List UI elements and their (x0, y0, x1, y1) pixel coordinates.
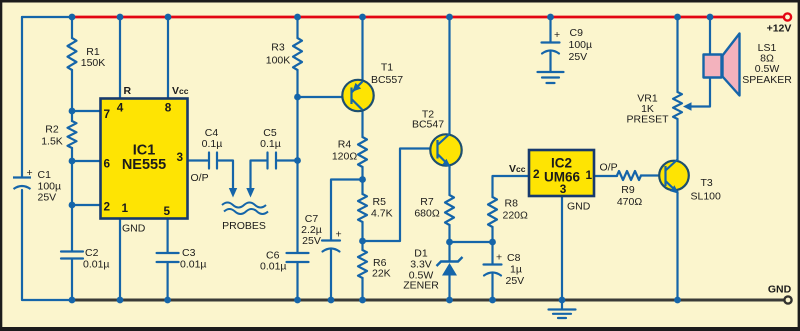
wire pin4 to +12V rail (119, 17, 121, 99)
wire VR1 wiper to speaker return (689, 78, 710, 107)
svg-text:1.5K: 1.5K (41, 136, 63, 148)
probe arrow 1 (229, 188, 237, 198)
wire pin6 tap (72, 160, 101, 162)
resistor R5 (358, 194, 367, 222)
svg-text:R5: R5 (373, 196, 387, 208)
svg-text:1: 1 (122, 201, 129, 215)
svg-text:3: 3 (560, 182, 567, 196)
wire R1 bottom to pin7 node (72, 70, 101, 111)
resistor R8 (488, 197, 497, 227)
wire pin7 node down (71, 111, 73, 121)
wire R3 bottom to T1 base node (296, 70, 298, 97)
svg-text:Vcc: Vcc (509, 163, 526, 175)
svg-text:+: + (554, 29, 560, 41)
capacitor C7 plates (322, 239, 340, 241)
wire pin2 tap (72, 204, 101, 206)
svg-text:Vcc: Vcc (172, 85, 189, 97)
wire D1 anode to ground rail (448, 275, 450, 300)
ground rail (black) (72, 299, 784, 302)
resistor R6 (358, 250, 367, 278)
wire C4 to probe 1 drop (219, 161, 234, 189)
wire T2 base path from R5/R6 node (363, 149, 438, 242)
wire node to C7 (331, 180, 363, 241)
wire speaker top to +12V rail (709, 17, 711, 55)
svg-text:100K: 100K (266, 55, 291, 67)
wire T1 collector to R4 (361, 110, 363, 137)
svg-text:2: 2 (533, 167, 540, 181)
wire C7 to ground rail (330, 250, 332, 300)
svg-text:25V: 25V (302, 235, 321, 247)
resistor R4 (358, 137, 367, 167)
svg-text:0.1µ: 0.1µ (202, 138, 223, 150)
svg-text:T1: T1 (381, 62, 393, 74)
svg-text:R4: R4 (338, 139, 352, 151)
svg-text:O/P: O/P (191, 172, 209, 184)
zener D1 (437, 257, 463, 276)
svg-text:R2: R2 (45, 124, 59, 136)
wire T2 emitter down to R7 (448, 166, 450, 195)
resistor R3 (293, 38, 302, 70)
svg-text:8: 8 (165, 101, 172, 115)
wire R7 bottom to node (448, 225, 450, 242)
svg-text:GND: GND (567, 201, 591, 213)
wire top-left blue segment (22, 16, 72, 18)
wire C9 to +12V rail (549, 17, 551, 42)
svg-text:R9: R9 (621, 184, 635, 196)
svg-text:R: R (124, 85, 132, 97)
resistor R2 (68, 121, 77, 148)
wire T1 base tap (298, 96, 352, 98)
wire R8 bottom to node (491, 227, 493, 242)
svg-text:BC557: BC557 (371, 74, 403, 86)
svg-text:120Ω: 120Ω (332, 151, 358, 163)
capacitor C1 (13, 178, 31, 190)
wire left riser from +12V corner to C1 (21, 17, 23, 177)
capacitor C2 (61, 252, 83, 259)
svg-text:PROBES: PROBES (222, 220, 266, 232)
wire R4 bottom to node and down to R5 (361, 167, 363, 194)
wire R6 to ground rail (361, 278, 363, 300)
wire C1 bottom to bottom rail corner and blue rail start (22, 190, 72, 300)
+12V rail (red) (72, 16, 784, 19)
probes water symbol (222, 203, 268, 215)
svg-text:O/P: O/P (600, 162, 618, 174)
svg-text:3: 3 (176, 150, 183, 164)
svg-text:NE555: NE555 (122, 157, 166, 173)
svg-text:1µ: 1µ (510, 264, 522, 276)
svg-text:6: 6 (104, 157, 111, 171)
IC2 UM66 box (529, 150, 594, 196)
wire T1 emitter to +12V rail (361, 17, 363, 81)
wire R5 bottom to node R6 (361, 222, 363, 250)
svg-text:150K: 150K (81, 57, 106, 69)
svg-text:T3: T3 (701, 177, 713, 189)
capacitor C4 (209, 153, 217, 169)
svg-text:22K: 22K (372, 268, 391, 280)
svg-text:SPEAKER: SPEAKER (742, 74, 792, 86)
svg-text:+: + (496, 252, 502, 264)
wire R2 bottom through pin6 and pin2 nodes to C2 (71, 148, 73, 251)
svg-text:R8: R8 (505, 198, 519, 210)
svg-text:+: + (27, 167, 33, 179)
svg-text:4: 4 (117, 101, 124, 115)
svg-text:BC547: BC547 (412, 119, 444, 131)
capacitor C3 (157, 253, 179, 262)
wire pin1 to ground rail (119, 219, 121, 301)
svg-text:GND: GND (768, 284, 792, 296)
svg-text:7: 7 (104, 107, 111, 121)
wire node to C8 (491, 242, 493, 264)
wire C9 to ground symbol (549, 52, 551, 72)
svg-text:SL100: SL100 (691, 191, 722, 203)
svg-text:C1: C1 (38, 169, 52, 181)
wire node to C5 node down to C6 (296, 97, 298, 253)
wire IC2 output pin1 to R9 (594, 175, 617, 177)
wire C3 to ground rail (167, 263, 169, 301)
resistor R9 (617, 171, 641, 180)
svg-text:ZENER: ZENER (403, 280, 439, 292)
svg-text:C3: C3 (182, 247, 196, 259)
svg-text:25V: 25V (569, 51, 588, 63)
capacitor C5 (268, 153, 277, 169)
wire T2 collector to +12V rail (448, 17, 450, 134)
capacitor C9 plates (542, 41, 560, 43)
wire T3 emitter to ground rail (676, 192, 678, 300)
svg-text:+12V: +12V (767, 23, 792, 35)
probe arrow 2 (246, 188, 254, 198)
svg-text:C8: C8 (507, 252, 521, 264)
svg-text:5: 5 (164, 204, 171, 218)
transistor T3 SL100 (659, 160, 689, 194)
wire VR1 bottom to T3 collector (676, 119, 678, 160)
svg-text:220Ω: 220Ω (503, 210, 529, 222)
wire probe 2 riser to C5 (251, 161, 267, 189)
svg-text:0.1µ: 0.1µ (260, 138, 281, 150)
svg-text:0.01µ: 0.01µ (83, 259, 110, 271)
wire IC2 gnd stub below rail (561, 300, 563, 309)
capacitor C8 plates (484, 263, 502, 265)
svg-text:470Ω: 470Ω (617, 196, 643, 208)
svg-text:25V: 25V (506, 275, 525, 287)
transistor T2 BC547 (430, 134, 461, 167)
svg-text:0.01µ: 0.01µ (180, 259, 207, 271)
svg-text:PRESET: PRESET (626, 114, 669, 126)
wire C6 to ground rail (296, 263, 298, 301)
svg-text:+: + (336, 229, 342, 241)
svg-text:1: 1 (585, 168, 592, 182)
svg-text:680Ω: 680Ω (414, 208, 440, 220)
GND terminal ring (784, 296, 791, 303)
wire R8 top to IC2 Vcc pin 2 (493, 176, 530, 197)
wire pin3 output to C4 (188, 159, 208, 161)
wire pin5 to C3 (167, 219, 169, 253)
wire IC2 pin3 to ground rail (561, 196, 563, 300)
wire C5 to R3 chain node (278, 159, 298, 161)
svg-text:25V: 25V (38, 192, 57, 204)
resistor R1 (68, 38, 77, 70)
wire C8 to ground rail (491, 274, 493, 300)
svg-text:100µ: 100µ (569, 39, 593, 51)
loudspeaker LS1 (704, 34, 740, 96)
wire R9 to T3 base (641, 174, 666, 176)
+12V terminal ring (784, 13, 791, 20)
resistor R7 (445, 195, 454, 225)
capacitor C6 (287, 253, 309, 262)
svg-text:C9: C9 (570, 27, 584, 39)
transistor T1 BC557 (342, 80, 373, 111)
preset VR1 (673, 92, 682, 119)
svg-text:R3: R3 (271, 42, 285, 54)
wire node to node R8/C8 (450, 241, 493, 243)
svg-text:GND: GND (122, 223, 146, 235)
svg-text:4.7K: 4.7K (371, 208, 393, 220)
preset VR1 wiper arrow (683, 102, 692, 110)
wire node to zener D1 (448, 242, 450, 261)
ground symbol IC2 (549, 310, 576, 319)
wire C2 to bottom rail (71, 259, 73, 300)
svg-text:C2: C2 (85, 247, 99, 259)
node R1 top / chain x=72 (71, 17, 73, 38)
wire R3 top to +12V rail (296, 17, 298, 38)
wire pin8 to +12V rail (167, 17, 169, 99)
ground symbol C9 (538, 72, 564, 83)
svg-text:R7: R7 (420, 196, 434, 208)
svg-text:2: 2 (104, 200, 111, 214)
op IC1 NE555 box (101, 99, 188, 219)
wire VR1 top to +12V rail (676, 17, 678, 92)
svg-text:IC2: IC2 (551, 156, 572, 171)
svg-text:0.01µ: 0.01µ (260, 261, 287, 273)
